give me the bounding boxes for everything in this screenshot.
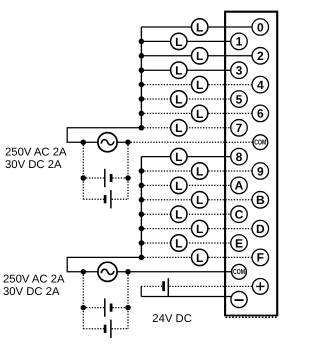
svg-text:L: L — [196, 193, 203, 207]
battery cell G1-bottom (short left plate, long right plate) — [105, 190, 111, 208]
terminal E — [231, 235, 248, 252]
terminal 4 — [252, 76, 269, 93]
svg-text:F: F — [257, 251, 264, 265]
svg-text:250V AC 2A: 250V AC 2A — [3, 274, 65, 286]
terminal 7 — [231, 120, 248, 137]
junction: bus2 / output 9 — [139, 168, 145, 174]
lamp L1 (load on output 1) — [171, 33, 187, 49]
junction: bus2 / output A — [139, 183, 145, 189]
battery 24V DC (short thick left plate, long right plate) — [164, 278, 169, 296]
wire: output 8 row — [141, 156, 239, 158]
terminal F — [252, 249, 269, 266]
lamp L8 (load on output 8) — [171, 148, 187, 164]
svg-text:L: L — [196, 107, 203, 121]
svg-text:L: L — [175, 64, 182, 78]
junction: AC1 left — [81, 139, 87, 145]
svg-text:L: L — [175, 92, 182, 106]
lamp L7 (load on output 7) — [171, 120, 187, 136]
svg-text:30V DC 2A: 30V DC 2A — [3, 286, 60, 298]
wire: output 2 row — [141, 55, 260, 57]
terminal 8 — [231, 148, 248, 165]
svg-text:E: E — [235, 236, 243, 250]
svg-text:C: C — [235, 208, 244, 222]
wire: output C row — [141, 213, 239, 215]
lamp LF (load on output F) — [192, 249, 208, 265]
svg-text:4: 4 — [257, 78, 264, 92]
lamp L2 (load on output 2) — [192, 48, 208, 64]
svg-text:L: L — [175, 35, 182, 49]
svg-text:5: 5 — [236, 92, 243, 106]
wire: COM2 solid wire to COM terminal — [128, 271, 239, 273]
svg-text:COM: COM — [254, 138, 266, 147]
wire: output 0 row — [141, 26, 260, 28]
junction: AC1 right — [125, 139, 131, 145]
svg-text:L: L — [196, 251, 203, 265]
lamp L6 (load on output 6) — [192, 105, 208, 121]
AC source G1 (250V AC) — [98, 133, 117, 152]
lamp L9 (load on output 9) — [192, 163, 208, 179]
junction: bus1 / output 2 — [139, 53, 145, 59]
wire: output A row — [141, 184, 239, 186]
battery cell G1-top (long left plate, short right plate) — [105, 169, 111, 187]
svg-text:COM: COM — [233, 267, 245, 276]
svg-text:B: B — [256, 193, 265, 207]
terminal 3 — [231, 62, 248, 79]
junction: battery1 left — [81, 175, 87, 181]
battery cell G2-bottom (short left plate, long right plate) — [105, 320, 111, 338]
lamp L3 (load on output 3) — [171, 62, 187, 78]
terminal COM (group 2) — [232, 264, 247, 279]
terminal A — [231, 177, 248, 194]
battery cell G2-top (long left plate, short right plate) — [105, 298, 111, 316]
junction: bus2 / output E — [139, 240, 145, 246]
wire: output 7 row — [141, 127, 239, 129]
junction: bus1 / output 4 — [139, 82, 145, 88]
svg-text:30V DC 2A: 30V DC 2A — [5, 159, 62, 171]
wire: output bus group 2 — [140, 157, 142, 258]
junction: AC2 left — [81, 269, 87, 275]
wire: output 6 row — [141, 112, 260, 114]
terminal - (24V negative) — [231, 291, 247, 307]
wire: output E row — [141, 242, 239, 244]
svg-text:L: L — [175, 236, 182, 250]
AC source G2 (250V AC) — [98, 262, 117, 281]
terminal 1 — [231, 33, 248, 50]
junction: bus1 / output 3 — [139, 67, 145, 73]
svg-text:6: 6 — [257, 107, 264, 121]
wire: COM1 dotted wire to COM terminal — [128, 141, 260, 143]
junction: battery1 right — [125, 175, 131, 181]
wire: AC supply loop group 1 — [67, 128, 141, 142]
terminal COM (group 1) — [253, 135, 268, 150]
svg-text:L: L — [196, 20, 203, 34]
svg-text:D: D — [256, 222, 265, 236]
svg-text:L: L — [175, 179, 182, 193]
terminal block bottom dotted edge — [226, 316, 278, 318]
junction: bus2 / output D — [139, 226, 145, 232]
lamp LE (load on output E) — [171, 235, 187, 251]
wire: AC supply loop group 2 — [67, 257, 141, 271]
svg-text:L: L — [196, 164, 203, 178]
lamp LB (load on output B) — [192, 192, 208, 208]
wire: output 9 row — [141, 170, 260, 172]
lamp L0 (load on output 0) — [192, 19, 208, 35]
lamp L4 (load on output 4) — [192, 76, 208, 92]
wire: output 4 row — [141, 84, 260, 86]
svg-text:0: 0 — [257, 20, 264, 34]
svg-text:L: L — [175, 150, 182, 164]
junction: bus1 / output 7 — [139, 125, 145, 131]
terminal 2 — [252, 48, 269, 65]
junction: bus1 / output 5 — [139, 96, 145, 102]
wire: output bus group 1 — [140, 27, 142, 128]
terminal + (24V positive) — [252, 279, 268, 295]
terminal 9 — [252, 163, 269, 180]
lamp L5 (load on output 5) — [171, 91, 187, 107]
junction: bus2 / output B — [139, 197, 145, 203]
svg-text:3: 3 — [236, 64, 243, 78]
terminal D — [252, 220, 269, 237]
lamp LD (load on output D) — [192, 220, 208, 236]
junction: bus2 / output C — [139, 211, 145, 217]
svg-text:L: L — [196, 78, 203, 92]
terminal C — [231, 206, 248, 223]
lamp LC (load on output C) — [171, 206, 187, 222]
wire: DC supply alternative loop group 1 (dotted) — [83, 142, 128, 199]
svg-text:L: L — [196, 49, 203, 63]
junction: bus2 / output F — [139, 255, 145, 261]
junction: battery2 left — [81, 305, 87, 311]
terminal 5 — [231, 91, 248, 108]
svg-text:9: 9 — [257, 164, 264, 178]
wire: DC supply alternative loop group 2 (dotted) — [83, 272, 128, 329]
junction: bus1 / output 6 — [139, 111, 145, 117]
wire: 24V positive dotted wire to + terminal — [141, 285, 260, 287]
svg-text:L: L — [175, 208, 182, 222]
terminal block outline — [224, 12, 278, 316]
svg-text:A: A — [235, 179, 244, 193]
wire: output 1 row — [141, 40, 239, 42]
terminal 0 — [252, 19, 269, 36]
svg-text:250V AC 2A: 250V AC 2A — [5, 147, 67, 159]
svg-text:7: 7 — [236, 121, 243, 135]
svg-text:24V DC: 24V DC — [152, 313, 192, 325]
wire: output 5 row — [141, 98, 239, 100]
svg-text:1: 1 — [236, 35, 243, 49]
svg-text:L: L — [175, 121, 182, 135]
svg-text:2: 2 — [257, 49, 264, 63]
lamp LA (load on output A) — [171, 177, 187, 193]
junction: bus1 / output 1 — [139, 39, 145, 45]
terminal B — [252, 192, 269, 209]
svg-text:8: 8 — [236, 150, 243, 164]
wire: output F row — [141, 256, 260, 258]
wire: output B row — [141, 199, 260, 201]
svg-text:L: L — [196, 222, 203, 236]
wire: output D row — [141, 228, 260, 230]
wire: output 3 row — [141, 69, 239, 71]
junction: battery2 right — [125, 305, 131, 311]
junction: AC2 right — [125, 269, 131, 275]
wire: 24V negative wire to - terminal — [141, 296, 239, 298]
terminal 6 — [252, 105, 269, 122]
wire: 24V battery loop left corner — [140, 286, 142, 296]
